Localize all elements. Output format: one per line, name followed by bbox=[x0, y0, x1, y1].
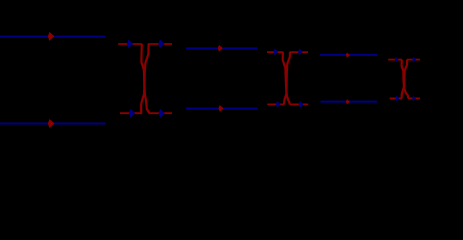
wire top X1 rail left (red) bbox=[118, 43, 142, 45]
soliton / coupled waveguide diagram bbox=[0, 0, 463, 167]
crossing line X2-B (red) bbox=[284, 52, 290, 104]
arrow A4 (red, on top segment 2) bbox=[218, 45, 223, 52]
wire bottom segment 2 (blue) bbox=[186, 108, 258, 110]
wire top segment 1 (blue) bbox=[0, 36, 106, 38]
crossing line X1-A (red) bbox=[141, 44, 148, 113]
wire bottom X3 rail right (red) bbox=[408, 97, 420, 99]
wire top segment 2 (blue) bbox=[186, 47, 258, 49]
crossing line X3-B (red) bbox=[402, 60, 407, 99]
wire bottom segment 1 (blue) bbox=[0, 123, 106, 125]
wire top X2 rail left (red) bbox=[267, 51, 283, 53]
arrow A8 (blue, on X3 top rail) bbox=[395, 57, 399, 63]
arrow A9 (blue, on X3 top rail) bbox=[412, 57, 416, 63]
arrow B4 (red, on bottom segment 2) bbox=[219, 105, 224, 112]
arrow B2 (blue, on X1 bottom rail) bbox=[129, 109, 135, 118]
arrow B6 (blue, on X2 bottom rail) bbox=[299, 101, 304, 108]
arrow A7 (red, on top segment 3) bbox=[346, 53, 350, 58]
wire bottom segment 3 (blue) bbox=[321, 101, 378, 103]
arrow B1 (red, on bottom segment 1) bbox=[48, 119, 55, 128]
arrow A2 (blue, on X1 top rail) bbox=[127, 39, 133, 48]
crossing line X3-A (red) bbox=[402, 60, 409, 99]
wire top X3 rail right (red) bbox=[407, 59, 420, 61]
wire top segment 3 (blue) bbox=[320, 54, 377, 56]
arrow B8 (blue, on X3 bottom rail) bbox=[396, 96, 400, 102]
wire top X2 rail right (red) bbox=[290, 51, 308, 53]
arrow B3 (blue, on X1 bottom rail) bbox=[159, 109, 165, 118]
wire top X3 rail left (red) bbox=[388, 59, 402, 61]
wire bottom X1 rail left (red) bbox=[120, 112, 142, 114]
arrow A3 (blue, on X1 top rail) bbox=[158, 39, 164, 48]
arrow B9 (blue, on X3 bottom rail) bbox=[412, 96, 416, 102]
arrow A1 (red, on top segment 1) bbox=[48, 32, 55, 41]
wire bottom X1 rail right (red) bbox=[149, 112, 172, 114]
arrow B7 (red, on bottom segment 3) bbox=[346, 99, 350, 104]
wire top X1 rail right (red) bbox=[148, 43, 172, 45]
arrow B5 (blue, on X2 bottom rail) bbox=[276, 101, 281, 108]
crossing line X1-B (red) bbox=[141, 44, 149, 113]
arrow A6 (blue, on X2 top rail) bbox=[298, 48, 303, 55]
arrow A5 (blue, on X2 top rail) bbox=[274, 48, 279, 55]
wire bottom X2 rail right (red) bbox=[290, 103, 309, 105]
wire bottom X3 rail left (red) bbox=[390, 97, 402, 99]
crossing line X2-A (red) bbox=[283, 52, 290, 104]
wire bottom X2 rail left (red) bbox=[267, 103, 284, 105]
